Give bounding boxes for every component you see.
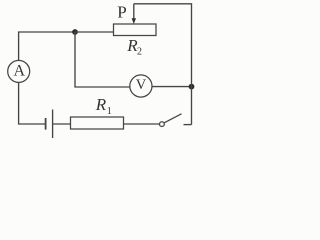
- resistor R1 body: [71, 117, 124, 129]
- wire: left vertical, ammeter bottom to bottom-left corner, then to battery: [19, 82, 45, 124]
- junction node: top-left tee: [72, 29, 78, 35]
- switch pivot: [160, 122, 165, 127]
- battery: short negative plate: [45, 118, 47, 130]
- ammeter A: [8, 60, 30, 82]
- wire: switch fixed contact to bottom-right corner: [184, 124, 192, 126]
- wire: resistor R1 to switch pivot: [124, 123, 160, 125]
- wire: slider top to top-right corner and down right side to switch: [134, 4, 192, 125]
- wire: battery to resistor R1: [53, 123, 71, 125]
- rheostat slider arrow: [133, 4, 135, 20]
- switch blade (open): [164, 114, 181, 123]
- wire: voltmeter to right junction: [152, 86, 192, 88]
- junction node: right tee: [189, 84, 195, 90]
- svg-text:2: 2: [137, 47, 142, 58]
- svg-text:V: V: [136, 77, 147, 93]
- wire: left vertical, top-left corner to ammeter top: [19, 32, 75, 60]
- rheostat R2 body: [114, 24, 157, 36]
- wire: junction down to voltmeter row: [75, 32, 130, 87]
- svg-text:1: 1: [107, 106, 112, 117]
- svg-text:R: R: [95, 95, 107, 114]
- wire: junction to rheostat left terminal: [75, 31, 114, 33]
- voltmeter V: [130, 75, 152, 97]
- svg-text:P: P: [117, 3, 126, 22]
- battery: long positive plate: [52, 110, 54, 139]
- svg-text:A: A: [14, 62, 26, 79]
